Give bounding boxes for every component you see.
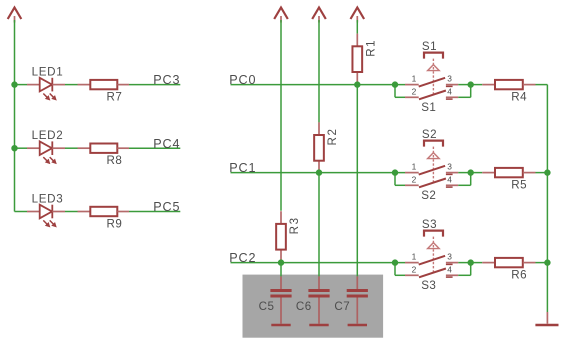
svg-text:S2: S2 [421,189,436,202]
svg-text:3: 3 [447,73,452,83]
svg-text:3: 3 [447,251,452,261]
svg-text:R8: R8 [107,154,123,167]
svg-text:4: 4 [447,87,452,97]
svg-text:PC2: PC2 [229,251,256,265]
svg-text:2: 2 [412,87,417,97]
svg-text:S2: S2 [422,128,437,141]
svg-text:R2: R2 [326,127,339,145]
svg-text:C6: C6 [296,300,312,313]
svg-text:PC0: PC0 [229,73,256,87]
svg-text:2: 2 [412,175,417,185]
svg-text:2: 2 [412,265,417,275]
svg-text:R4: R4 [511,91,527,104]
svg-text:PC3: PC3 [153,73,180,87]
svg-text:4: 4 [447,175,452,185]
svg-text:C5: C5 [259,300,275,313]
svg-text:PC4: PC4 [153,137,180,151]
svg-text:LED1: LED1 [32,66,64,79]
svg-text:R6: R6 [511,269,527,282]
svg-text:S3: S3 [422,218,437,231]
svg-text:PC5: PC5 [153,200,180,214]
svg-text:R1: R1 [365,39,378,57]
svg-text:R9: R9 [107,217,123,230]
svg-text:R5: R5 [511,179,527,192]
svg-text:R3: R3 [288,216,301,234]
svg-text:R7: R7 [107,90,123,103]
svg-text:LED2: LED2 [32,129,64,142]
svg-text:C7: C7 [334,300,350,313]
svg-text:1: 1 [412,251,417,261]
svg-text:1: 1 [412,73,417,83]
svg-text:3: 3 [447,161,452,171]
svg-text:4: 4 [447,265,452,275]
svg-text:S3: S3 [421,279,436,292]
svg-text:LED3: LED3 [32,192,64,205]
svg-text:S1: S1 [422,40,437,53]
svg-text:S1: S1 [421,101,436,114]
svg-text:1: 1 [412,161,417,171]
svg-text:PC1: PC1 [229,161,256,175]
